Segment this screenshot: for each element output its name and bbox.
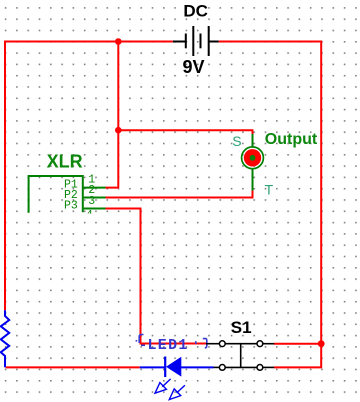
switch S1 top lever — [225, 343, 256, 345]
svg-text:9V: 9V — [182, 57, 204, 77]
svg-text:3: 3 — [88, 195, 95, 208]
wire: left border + top-left segment (red) — [5, 42, 173, 311]
svg-text:P3: P3 — [64, 199, 78, 212]
jack J2 tip pin stub — [252, 168, 254, 191]
wire: top-right segment from battery to right border down to switch (red) — [219, 42, 322, 344]
wire: bottom rail from resistor to LED (red) — [6, 366, 140, 368]
switch S1 bottom lever — [225, 366, 256, 368]
switch S1 contact circle top-left — [219, 341, 225, 347]
XLR pin stub 3 — [83, 208, 106, 210]
XLR connector J1 body — [29, 176, 83, 213]
svg-text:Output: Output — [265, 131, 318, 148]
LED D1 selection box (dashed) — [136, 335, 207, 348]
wire: LED cathode to switch (blue) — [181, 366, 214, 368]
wire: right border down to switch bottom pole (red) — [274, 344, 321, 368]
wire: switch S1 top pole to right border (red) — [274, 343, 321, 345]
node C junction dot at switch right — [318, 340, 325, 347]
battery B1 symbol — [173, 26, 219, 56]
switch S1 bottom pole right stub — [263, 366, 274, 368]
wire: LED anode lead (blue) — [140, 366, 166, 368]
switch S1 contact circle bottom-left — [219, 365, 225, 371]
jack J2 center pin dot — [250, 155, 256, 161]
node B junction dot at sleeve branch — [115, 127, 122, 134]
svg-text:XLR: XLR — [47, 151, 83, 171]
wire: XLR pin3 down to switch row (red) — [106, 209, 207, 344]
jack J2 outer ring — [242, 147, 264, 169]
node A junction dot on top wire — [115, 38, 122, 45]
switch S1 contact circle top-right — [257, 341, 263, 347]
switch S1 bottom pole left stub — [214, 366, 220, 368]
svg-text:S: S — [232, 133, 241, 149]
jack J2 red contact disc — [244, 149, 261, 166]
switch S1 top pole right stub — [263, 343, 274, 345]
wire: vertical branch from top wire to XLR pin1 (red) — [106, 42, 120, 188]
switch S1 contact circle bottom-right — [257, 365, 263, 371]
svg-text:DC: DC — [183, 1, 208, 20]
svg-text:LED1: LED1 — [148, 337, 189, 354]
LED D1 triangle — [166, 357, 181, 377]
svg-text:T: T — [265, 182, 274, 198]
switch S1 gang link — [240, 344, 242, 368]
svg-text:S1: S1 — [231, 318, 252, 337]
switch S1 top pole left stub — [206, 343, 219, 345]
wire: jack tip T to XLR pin2 (red) — [106, 190, 253, 198]
LED D1 cathode bar — [164, 357, 166, 378]
jack J2 sleeve pin stub — [252, 134, 254, 148]
XLR pin stub 2 — [83, 197, 106, 199]
LED D1 light arrow 1 — [155, 379, 171, 393]
LED D1 light arrow 2 — [169, 385, 185, 399]
resistor R1 — [1, 310, 9, 367]
wire: to jack sleeve S (red) — [118, 130, 252, 137]
XLR pin stub 1 — [83, 187, 106, 189]
